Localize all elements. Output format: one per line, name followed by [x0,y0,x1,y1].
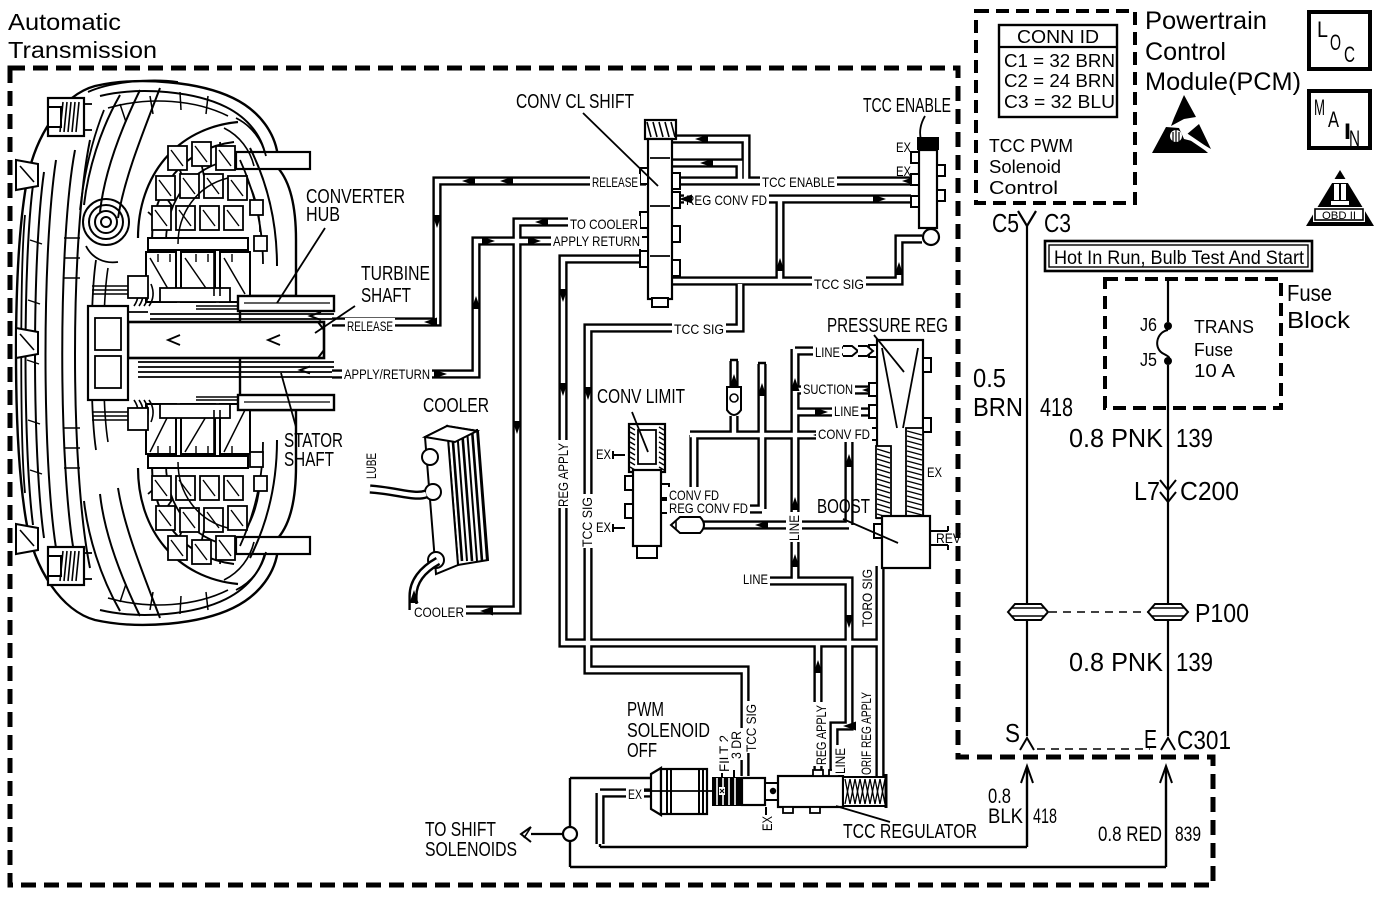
svg-text:Fuse: Fuse [1194,340,1233,360]
svg-text:TCC REGULATOR: TCC REGULATOR [843,821,977,843]
svg-text:TCC ENABLE: TCC ENABLE [762,174,835,190]
svg-text:TURBINE: TURBINE [361,263,430,285]
svg-text:P100: P100 [1195,598,1249,628]
svg-text:SOLENOID: SOLENOID [627,720,710,742]
svg-text:M: M [1314,95,1325,120]
svg-text:TORO SIG: TORO SIG [859,569,875,627]
svg-text:EX: EX [596,446,612,462]
svg-text:PWM: PWM [627,699,664,721]
svg-text:COOLER: COOLER [414,604,464,620]
svg-text:TRANS: TRANS [1194,317,1254,337]
svg-text:LINE: LINE [834,403,859,419]
svg-text:COOLER: COOLER [423,395,489,417]
svg-text:C200: C200 [1180,476,1239,506]
svg-text:3 DR: 3 DR [728,731,744,759]
svg-text:S: S [1005,718,1020,748]
svg-text:Solenoid: Solenoid [989,157,1061,177]
svg-text:839: 839 [1175,823,1201,846]
svg-text:REG CONV FD: REG CONV FD [669,500,748,516]
svg-text:PRESSURE REG: PRESSURE REG [827,315,948,337]
svg-text:EX: EX [628,786,642,802]
svg-text:C1 = 32 BRN: C1 = 32 BRN [1004,51,1115,71]
svg-text:LINE: LINE [815,344,840,360]
svg-text:0.5: 0.5 [973,363,1006,393]
svg-text:C3 = 32 BLU: C3 = 32 BLU [1004,92,1115,112]
svg-text:LINE: LINE [832,748,848,774]
svg-text:C5: C5 [992,208,1019,238]
svg-text:Fuse: Fuse [1287,280,1332,306]
svg-text:J6: J6 [1140,315,1157,335]
svg-text:TCC SIG: TCC SIG [814,276,864,292]
svg-text:BLK: BLK [988,805,1023,828]
svg-text:EX: EX [596,519,612,535]
svg-text:TCC SIG: TCC SIG [579,497,595,547]
svg-text:TO COOLER: TO COOLER [570,216,638,232]
svg-text:OFF: OFF [627,740,657,762]
svg-text:REG CONV FD: REG CONV FD [686,192,767,208]
svg-text:EX: EX [759,815,775,831]
svg-text:BOOST: BOOST [817,496,870,518]
svg-text:EX: EX [927,464,943,480]
svg-text:C301: C301 [1177,725,1231,755]
svg-text:418: 418 [1040,392,1073,422]
svg-text:REG APPLY: REG APPLY [555,442,571,507]
svg-text:SHAFT: SHAFT [284,449,334,471]
svg-text:Block: Block [1287,307,1351,333]
svg-text:SOLENOIDS: SOLENOIDS [425,839,517,861]
svg-text:RELEASE: RELEASE [347,318,393,334]
svg-text:139: 139 [1176,647,1213,677]
svg-text:HUB: HUB [306,204,340,226]
svg-text:Powertrain: Powertrain [1145,7,1267,35]
svg-text:LUBE: LUBE [363,453,379,479]
svg-text:Automatic: Automatic [8,9,121,35]
svg-text:J5: J5 [1140,350,1157,370]
svg-text:TO SHIFT: TO SHIFT [425,819,496,841]
svg-text:EX: EX [896,163,912,179]
svg-text:SHAFT: SHAFT [361,285,411,307]
svg-text:LINE: LINE [786,515,802,541]
svg-text:L7: L7 [1134,476,1160,506]
svg-text:0.8 RED: 0.8 RED [1098,823,1162,846]
svg-text:CONV CL SHIFT: CONV CL SHIFT [516,91,634,113]
svg-text:SUCTION: SUCTION [803,381,853,397]
svg-text:Transmission: Transmission [8,37,157,63]
svg-text:CONN ID: CONN ID [1017,27,1099,47]
svg-text:C2 = 24 BRN: C2 = 24 BRN [1004,71,1115,91]
svg-text:APPLY/RETURN: APPLY/RETURN [344,366,430,382]
svg-text:RELEASE: RELEASE [592,174,638,190]
svg-text:TCC SIG: TCC SIG [674,321,724,337]
svg-text:Control: Control [1145,38,1226,66]
svg-text:418: 418 [1033,805,1057,828]
svg-text:N: N [1349,126,1360,151]
svg-text:C3: C3 [1044,208,1071,238]
svg-text:TCC SIG: TCC SIG [743,704,759,752]
svg-text:L: L [1317,17,1328,42]
svg-text:10 A: 10 A [1194,361,1235,381]
svg-text:Module(PCM): Module(PCM) [1145,68,1301,96]
svg-text:0.8 PNK: 0.8 PNK [1069,647,1164,677]
svg-text:139: 139 [1176,423,1213,453]
svg-text:APPLY RETURN: APPLY RETURN [553,233,640,249]
svg-text:C: C [1344,42,1355,67]
svg-text:CONV LIMIT: CONV LIMIT [597,386,685,408]
svg-text:0.8 PNK: 0.8 PNK [1069,423,1164,453]
svg-text:Hot In Run, Bulb Test And Star: Hot In Run, Bulb Test And Start [1054,248,1305,269]
svg-text:CONV FD: CONV FD [818,426,870,442]
svg-text:E: E [1144,724,1157,754]
svg-text:TCC PWM: TCC PWM [989,136,1073,156]
svg-text:O: O [1330,30,1341,55]
svg-text:OBD II: OBD II [1322,210,1356,222]
svg-text:ORIF REG APPLY: ORIF REG APPLY [858,692,874,775]
svg-text:TCC ENABLE: TCC ENABLE [863,95,951,117]
svg-text:EX: EX [896,139,912,155]
svg-text:BRN: BRN [973,392,1023,422]
svg-text:REG APPLY: REG APPLY [813,704,829,765]
svg-text:A: A [1328,107,1339,132]
svg-text:REV: REV [936,530,962,546]
svg-text:Control: Control [989,178,1058,198]
svg-text:LINE: LINE [743,571,768,587]
